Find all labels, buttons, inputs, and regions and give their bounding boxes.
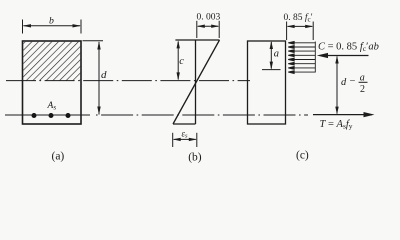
dimension line 0.85fc (288, 25, 313, 27)
extension line right of 0.85fc dim (312, 22, 314, 41)
compression zone hatching (23, 42, 80, 81)
rebar dot 1 (32, 113, 37, 118)
svg-text:T = Asfy: T = Asfy (320, 119, 353, 131)
svg-text:(c): (c) (296, 150, 309, 162)
dimension line b (24, 25, 81, 27)
extension lines 0.003 (196, 21, 198, 38)
beam section rectangle (a) (23, 41, 82, 124)
strain diagram axis (b) (195, 40, 197, 124)
extension line right of b (80, 20, 82, 34)
dimension line 0.003 (198, 25, 218, 27)
dimension line c (177, 42, 179, 80)
extension line left of 0.85fc dim (286, 22, 288, 41)
strain bottom edge (173, 123, 196, 125)
steel centroid dash-dot line (5, 114, 90, 116)
svg-text:d: d (341, 77, 347, 88)
svg-text:a: a (274, 49, 279, 60)
stress section rectangle (c) (248, 41, 286, 124)
T force arrow (313, 114, 372, 116)
svg-text:d: d (101, 69, 107, 81)
dimension line d (98, 42, 100, 115)
svg-text:(b): (b) (188, 152, 202, 164)
dimension line d-a/2 (336, 57, 338, 114)
extension line for d at beam top (83, 40, 104, 42)
svg-text:2: 2 (360, 84, 365, 95)
dimension line a (270, 42, 272, 69)
svg-text:0. 003: 0. 003 (197, 13, 221, 23)
svg-text:As: As (47, 101, 57, 112)
neutral axis dash-dot line (6, 80, 250, 82)
rebar dot 2 (49, 113, 54, 118)
strain diagonal (173, 40, 220, 124)
svg-text:−: − (350, 76, 356, 87)
rebar dot 3 (66, 113, 71, 118)
strain top edge (175, 39, 219, 41)
stress block right edge (314, 42, 316, 73)
extension line left of b (22, 20, 24, 34)
extension tick bottom of a (262, 69, 281, 71)
svg-text:b: b (49, 16, 54, 27)
svg-text:C = 0. 85 fc′ab: C = 0. 85 fc′ab (318, 42, 379, 54)
extension lines epsilon s (172, 133, 174, 147)
svg-text:(a): (a) (52, 151, 65, 163)
svg-text:c: c (179, 56, 184, 67)
stress block arrow lines (288, 41, 315, 73)
C force arrow (327, 55, 369, 57)
dimension line epsilon s (174, 138, 196, 140)
